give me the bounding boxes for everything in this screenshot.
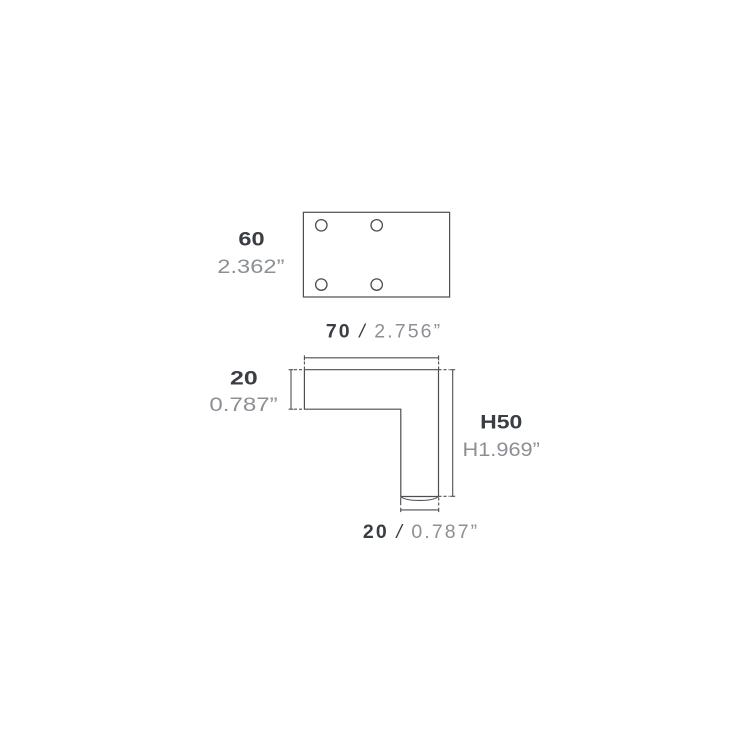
svg-text:0.787”: 0.787” bbox=[209, 394, 277, 416]
hole top-right bbox=[371, 220, 382, 231]
svg-text:20: 20 bbox=[230, 368, 258, 390]
top dimension line (70) bbox=[304, 357, 438, 359]
svg-text:H50: H50 bbox=[480, 412, 522, 434]
bottom dimension right tick bbox=[438, 508, 440, 512]
top dimension left extension (dashed) bbox=[303, 362, 305, 370]
right dimension line (H50 height) bbox=[452, 370, 454, 497]
right dimension top tick bbox=[450, 369, 455, 371]
mounting plate (top view) outline bbox=[303, 212, 449, 297]
bottom dimension line (20 leg width) bbox=[401, 509, 439, 511]
svg-text:60: 60 bbox=[238, 228, 264, 250]
top dimension right tick bbox=[438, 355, 440, 360]
top dimension left tick bbox=[303, 355, 305, 360]
svg-text:2.362”: 2.362” bbox=[217, 256, 284, 278]
left dimension top tick bbox=[289, 369, 294, 371]
left dimension top extension (dashed) bbox=[294, 369, 304, 371]
left dimension line (20 arm thickness) bbox=[290, 370, 292, 410]
top dimension right extension (dashed) bbox=[438, 362, 440, 370]
svg-text:70 / 2.756”: 70 / 2.756” bbox=[326, 321, 442, 343]
left dimension bottom tick bbox=[289, 408, 294, 410]
bottom dimension right extension (dashed) bbox=[438, 498, 440, 508]
hole bottom-left bbox=[316, 279, 327, 290]
hole bottom-right bbox=[371, 279, 382, 290]
bottom dimension left tick bbox=[400, 508, 402, 512]
svg-text:H1.969”: H1.969” bbox=[463, 439, 540, 461]
left dimension bottom extension (dashed) bbox=[294, 408, 304, 410]
bottom dimension left extension (solid) bbox=[400, 497, 402, 505]
hole top-left bbox=[316, 220, 327, 231]
right dimension bottom extension (dashed) bbox=[439, 495, 450, 497]
L-shaped leg profile outline bbox=[304, 370, 438, 497]
right dimension top extension (dashed) bbox=[439, 369, 450, 371]
leg bottom rim arc bbox=[401, 497, 438, 500]
right dimension bottom tick bbox=[450, 495, 455, 497]
svg-text:20 / 0.787”: 20 / 0.787” bbox=[363, 521, 479, 543]
